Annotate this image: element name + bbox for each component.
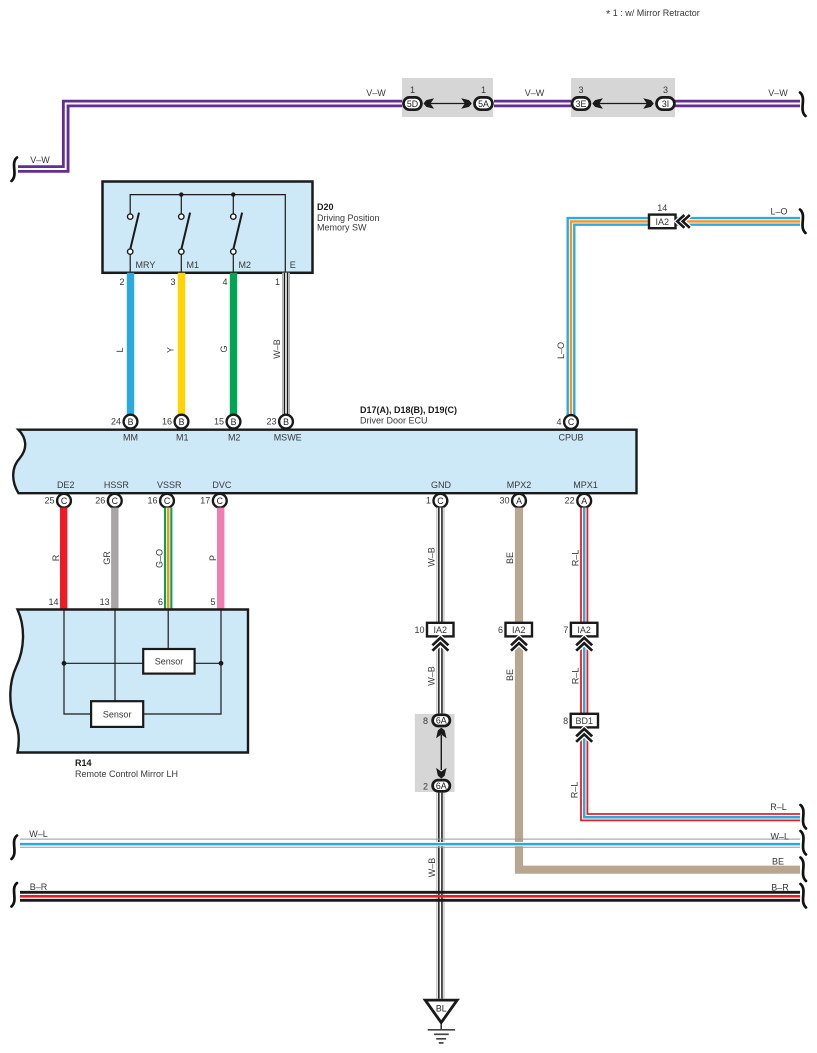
squiggle left V-W <box>12 158 18 182</box>
svg-text:6: 6 <box>498 625 503 635</box>
svg-text:C: C <box>568 417 575 427</box>
pin 1 C GND <box>426 480 452 508</box>
svg-text:W–B: W–B <box>427 858 437 878</box>
svg-text:B: B <box>283 417 289 427</box>
wire upper-left horizontal <box>64 662 143 664</box>
svg-text:V–W: V–W <box>30 155 50 165</box>
box Driver Door ECU <box>13 430 636 494</box>
svg-text:G–O: G–O <box>154 549 164 568</box>
arrowhead into 3E <box>592 98 603 108</box>
svg-text:3I: 3I <box>662 99 669 109</box>
svg-text:23: 23 <box>266 417 276 427</box>
pin 25 C DE2 <box>44 480 74 508</box>
connector IA2 pin 6 <box>498 623 532 637</box>
svg-text:26: 26 <box>95 496 105 506</box>
svg-text:D20: D20 <box>317 202 334 212</box>
svg-text:3: 3 <box>663 85 668 95</box>
pin 16 C VSSR <box>147 480 181 508</box>
wire pin5 down <box>220 610 222 663</box>
chevrons below IA2 GND <box>432 638 448 651</box>
sensor box lower <box>91 701 143 727</box>
svg-text:30: 30 <box>499 496 509 506</box>
bus wire inside D20 <box>130 195 285 272</box>
switch M1 <box>179 213 199 272</box>
squiggle left B-R <box>12 883 18 907</box>
oval connector 3I pin 3 <box>657 85 675 110</box>
wire B-R across <box>20 892 800 900</box>
svg-text:W–L: W–L <box>771 832 790 842</box>
squiggle right R-L <box>801 805 807 829</box>
box R14 Remote Control Mirror LH <box>10 610 248 753</box>
svg-text:R–L: R–L <box>570 550 580 567</box>
wire R-L MPX1 down and right to edge <box>584 508 800 818</box>
svg-text:GR: GR <box>102 551 112 565</box>
svg-text:W–B: W–B <box>427 666 437 686</box>
wire W-B GND down <box>436 508 444 999</box>
junction dot M1 <box>179 192 183 196</box>
svg-text:W–B: W–B <box>427 547 437 567</box>
wire left loop <box>64 663 91 714</box>
svg-text:R14: R14 <box>75 758 92 768</box>
svg-text:R–L: R–L <box>569 782 579 799</box>
svg-text:5: 5 <box>210 597 215 607</box>
connector IA2 pin 14 <box>649 203 676 228</box>
svg-text:BL: BL <box>436 1003 447 1013</box>
svg-text:Sensor: Sensor <box>155 657 184 667</box>
connector IA2 pin 7 <box>563 623 597 637</box>
svg-text:17: 17 <box>200 496 210 506</box>
svg-text:Sensor: Sensor <box>103 710 132 720</box>
svg-text:6A: 6A <box>436 716 447 726</box>
wire pin14 down <box>63 610 65 663</box>
svg-text:R–L: R–L <box>570 668 580 685</box>
wire G green pin4 to M2 <box>230 273 237 415</box>
svg-text:MPX2: MPX2 <box>507 480 532 490</box>
switch M2 <box>231 213 251 272</box>
svg-text:MPX1: MPX1 <box>573 480 598 490</box>
svg-text:BE: BE <box>772 857 784 867</box>
connector IA2 pin 10 <box>414 623 453 637</box>
svg-text:IA2: IA2 <box>577 625 591 635</box>
svg-text:A: A <box>516 496 522 506</box>
arrow line 3E-3I <box>598 103 648 105</box>
wire V-W left run with corner to left edge <box>18 104 403 170</box>
pin 16 B M1 <box>162 415 189 443</box>
junction dot right <box>219 661 224 666</box>
svg-text:5A: 5A <box>478 99 489 109</box>
svg-text:22: 22 <box>565 496 575 506</box>
svg-text:B: B <box>231 417 237 427</box>
svg-text:4: 4 <box>222 277 227 287</box>
svg-text:1: 1 <box>481 85 486 95</box>
svg-text:E: E <box>290 260 296 270</box>
svg-text:IA2: IA2 <box>512 625 526 635</box>
wire G-O VSSR to R14 <box>164 508 172 609</box>
wire BE MPX2 down and right to edge <box>515 508 523 623</box>
svg-text:4: 4 <box>556 417 561 427</box>
wire upper-right horizontal <box>195 662 221 664</box>
arrowhead into 5D <box>424 98 435 108</box>
svg-text:3: 3 <box>578 85 583 95</box>
svg-text:M1: M1 <box>176 433 189 443</box>
bus drop M1 <box>180 195 182 214</box>
svg-text:B: B <box>179 417 185 427</box>
svg-text:W–L: W–L <box>29 829 48 839</box>
connector pair 5D/5A gray box <box>402 78 493 117</box>
svg-text:CPUB: CPUB <box>558 433 583 443</box>
squiggle right W-L <box>801 831 807 855</box>
oval connector 6A pin 8 <box>423 715 450 726</box>
ground symbol BL <box>425 1000 457 1043</box>
connector 6A gray box <box>415 714 455 792</box>
svg-text:B–R: B–R <box>771 883 789 893</box>
svg-text:C: C <box>61 496 68 506</box>
wire V-W right to edge <box>675 100 800 108</box>
sensor box upper <box>143 649 194 674</box>
arrow up between 6A <box>440 735 442 770</box>
svg-text:C: C <box>164 496 171 506</box>
wire pin13 to lower sensor <box>114 610 116 701</box>
svg-text:Y: Y <box>166 347 176 353</box>
wire W-L across <box>20 839 800 847</box>
svg-text:8: 8 <box>423 716 428 726</box>
pin 15 B M2 <box>214 415 240 443</box>
svg-text:1: 1 <box>275 277 280 287</box>
svg-text:MM: MM <box>123 433 138 443</box>
svg-text:C: C <box>437 496 444 506</box>
svg-text:6A: 6A <box>436 781 447 791</box>
bus drop M2 <box>232 195 234 214</box>
svg-text:W–B: W–B <box>272 339 282 359</box>
svg-text:7: 7 <box>563 625 568 635</box>
wire R red DE2 to R14 <box>60 508 67 609</box>
arrow down between 6A <box>436 768 446 779</box>
svg-text:C: C <box>112 496 119 506</box>
svg-text:M1: M1 <box>187 260 200 270</box>
junction dot M2 <box>231 192 235 196</box>
svg-text:V–W: V–W <box>366 88 386 98</box>
pin 4 C CPUB <box>556 415 583 442</box>
oval connector 6A pin 2 <box>423 780 450 791</box>
svg-text:Memory SW: Memory SW <box>317 223 367 233</box>
svg-text:13: 13 <box>100 597 110 607</box>
junction dot left <box>62 661 67 666</box>
svg-text:Driving Position: Driving Position <box>317 213 380 223</box>
wire GR gray HSSR to R14 <box>111 508 118 609</box>
wire W-B pin1 to MSWE <box>282 273 290 415</box>
wire right loop <box>143 663 221 714</box>
svg-text:2: 2 <box>119 277 124 287</box>
squiggle right L-O <box>800 210 806 234</box>
chevrons below IA2 MPX1 <box>576 638 592 651</box>
svg-text:MSWE: MSWE <box>274 433 302 443</box>
svg-text:BE: BE <box>505 552 515 564</box>
svg-text:14: 14 <box>657 203 667 213</box>
svg-text:B: B <box>128 417 134 427</box>
pin 17 C DVC <box>200 480 232 508</box>
pin 22 A MPX1 <box>565 480 598 508</box>
svg-text:3: 3 <box>170 277 175 287</box>
svg-text:L–O: L–O <box>770 207 787 217</box>
svg-text:R: R <box>51 554 61 561</box>
svg-text:V–W: V–W <box>525 88 545 98</box>
svg-text:Driver Door ECU: Driver Door ECU <box>360 416 428 426</box>
wire P pink DVC to R14 <box>217 508 224 609</box>
svg-text:BE: BE <box>505 669 515 681</box>
svg-text:1: 1 <box>410 85 415 95</box>
connector pair 3E/3I gray box <box>571 78 675 117</box>
svg-text:P: P <box>208 555 218 561</box>
svg-text:DE2: DE2 <box>57 480 75 490</box>
pin 24 B MM <box>111 415 138 443</box>
pin 30 A MPX2 <box>499 480 531 508</box>
svg-text:1: 1 <box>426 496 431 506</box>
squiggle left W-L <box>12 836 18 860</box>
R14 internal wires <box>64 610 221 714</box>
svg-text:10: 10 <box>414 625 424 635</box>
svg-text:HSSR: HSSR <box>104 480 130 490</box>
chevrons below IA2 BE <box>511 638 527 651</box>
svg-text:IA2: IA2 <box>433 625 447 635</box>
svg-text:L–O: L–O <box>556 342 566 359</box>
svg-text:M2: M2 <box>228 433 241 443</box>
wire Y yellow pin3 to M1 <box>178 273 185 415</box>
svg-text:15: 15 <box>214 417 224 427</box>
svg-text:MRY: MRY <box>136 260 156 270</box>
svg-text:DVC: DVC <box>212 480 232 490</box>
svg-text:14: 14 <box>48 597 58 607</box>
svg-text:B–R: B–R <box>30 882 48 892</box>
svg-text:6: 6 <box>158 597 163 607</box>
wire L-O from right edge to CPUB <box>571 221 800 415</box>
svg-text:25: 25 <box>44 496 54 506</box>
switch MRY <box>128 213 156 272</box>
wire L blue pin2 to MM <box>127 273 134 415</box>
svg-text:D17(A), D18(B), D19(C): D17(A), D18(B), D19(C) <box>360 405 457 415</box>
svg-text:VSSR: VSSR <box>157 480 182 490</box>
chevrons below BD1 <box>576 729 592 742</box>
svg-text:C: C <box>217 496 224 506</box>
arrow line 5D-5A <box>430 103 465 105</box>
svg-text:G: G <box>219 345 229 352</box>
oval connector 3E pin 3 <box>572 85 590 110</box>
svg-text:3E: 3E <box>576 99 587 109</box>
svg-text:A: A <box>581 496 587 506</box>
svg-text:5D: 5D <box>407 99 418 109</box>
svg-text:* 1 : w/ Mirror Retractor: * 1 : w/ Mirror Retractor <box>606 8 700 21</box>
svg-text:R–L: R–L <box>770 802 787 812</box>
chevrons right of IA2 <box>677 215 690 228</box>
svg-text:8: 8 <box>563 716 568 726</box>
wire V-W between 5A and 3E <box>494 100 572 108</box>
arrowhead into 3I <box>643 98 654 108</box>
box D20 Driving Position Memory SW <box>103 182 313 273</box>
svg-text:L: L <box>115 347 125 352</box>
svg-text:24: 24 <box>111 417 121 427</box>
svg-text:Remote Control Mirror LH: Remote Control Mirror LH <box>75 769 178 779</box>
squiggle right B-R <box>801 884 807 908</box>
svg-text:BD1: BD1 <box>576 716 594 726</box>
svg-text:2: 2 <box>423 781 428 791</box>
pin 23 B MSWE <box>266 415 301 443</box>
svg-text:GND: GND <box>431 480 452 490</box>
wire pin6 to upper sensor <box>167 610 169 649</box>
squiggle right BE <box>801 858 807 882</box>
oval connector 5D pin 1 <box>404 85 422 110</box>
pin 26 C HSSR <box>95 480 129 508</box>
arrowhead into 5A <box>461 98 472 108</box>
squiggle right V-W <box>800 93 806 117</box>
svg-text:IA2: IA2 <box>655 217 669 227</box>
svg-text:16: 16 <box>147 496 157 506</box>
svg-text:V–W: V–W <box>768 88 788 98</box>
oval connector 5A pin 1 <box>475 85 493 110</box>
svg-text:M2: M2 <box>239 260 252 270</box>
connector BD1 pin 8 <box>563 714 598 728</box>
svg-text:16: 16 <box>162 417 172 427</box>
